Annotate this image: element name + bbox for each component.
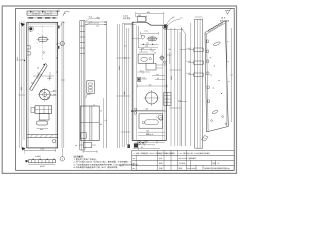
balloon 1 bottom xyxy=(60,157,64,161)
dim pair right of panel A xyxy=(61,21,63,148)
bottom dim line of panel xyxy=(25,149,56,151)
svg-text:2134: 2134 xyxy=(118,66,121,70)
svg-text:415: 415 xyxy=(149,83,152,86)
outer border xyxy=(2,6,236,173)
right edge view column group xyxy=(195,19,203,148)
lock assembly lower xyxy=(139,114,163,128)
svg-text:L=25: L=25 xyxy=(187,60,191,63)
svg-text:746: 746 xyxy=(145,108,148,111)
iso edge clips xyxy=(206,40,209,103)
obround lower xyxy=(36,121,48,125)
svg-text:审核: 审核 xyxy=(159,162,163,165)
small circle bottom right of panel xyxy=(52,140,55,143)
svg-text:85: 85 xyxy=(100,123,102,126)
keeper detail box xyxy=(87,81,95,94)
svg-text:30: 30 xyxy=(169,48,171,51)
mid dim line panel D xyxy=(138,85,168,87)
dimension tiny texts xyxy=(16,11,191,168)
svg-text:2134: 2134 xyxy=(16,57,19,61)
arm joint details xyxy=(43,64,45,66)
secondary box below cluster xyxy=(146,63,156,70)
svg-text:45°: 45° xyxy=(172,16,175,19)
horizontal line across panel D xyxy=(132,110,166,112)
svg-text:1: 1 xyxy=(62,158,63,161)
svg-text:设计: 设计 xyxy=(159,157,163,160)
inner frame xyxy=(16,8,235,170)
svg-text:65: 65 xyxy=(154,52,156,55)
svg-text:12.7: 12.7 xyxy=(89,20,93,23)
svg-text:技术要求：: 技术要求： xyxy=(74,155,86,159)
small holes panel A xyxy=(43,52,45,54)
svg-text:L=25: L=25 xyxy=(187,72,191,75)
iso bracket small bottom xyxy=(202,136,209,142)
dims below panel D xyxy=(133,110,165,150)
extension line xyxy=(190,23,192,146)
iso face marks xyxy=(210,57,222,94)
right dim stack of panel D xyxy=(170,28,182,146)
svg-text:2100: 2100 xyxy=(20,87,23,91)
svg-text:（备注）: （备注） xyxy=(118,164,126,167)
hanger plate on top xyxy=(138,17,146,22)
svg-text:120: 120 xyxy=(145,45,148,48)
svg-text:260: 260 xyxy=(146,130,149,133)
surface finish symbol near plan xyxy=(63,12,70,16)
svg-text:4. 所有紧固件连接应按Ⅱ7才能（4×2）组装后使用。: 4. 所有紧固件连接应按Ⅱ7才能（4×2）组装后使用。 xyxy=(74,166,120,169)
svg-text:Φ4: Φ4 xyxy=(133,157,135,160)
svg-text:沉孔贯穿: 沉孔贯穿 xyxy=(123,17,130,20)
svg-text:1:5: 1:5 xyxy=(217,162,219,165)
detail circle with hatch (top right of panel D) xyxy=(163,24,168,29)
second check flag xyxy=(61,23,65,26)
svg-text:904: 904 xyxy=(147,11,150,14)
svg-text:05#: 05# xyxy=(165,152,168,155)
svg-text:2100: 2100 xyxy=(170,76,173,80)
svg-text:批准: 批准 xyxy=(159,167,163,170)
big circle in panel D xyxy=(146,92,158,104)
svg-text:1:06（第1页/共1页）2014经审批文件编号: 1:06（第1页/共1页）2014经审批文件编号 xyxy=(179,152,211,155)
svg-text:330: 330 xyxy=(46,13,49,16)
svg-text:日期: 日期 xyxy=(179,167,183,170)
svg-text:L=25: L=25 xyxy=(187,47,191,50)
group top dim xyxy=(195,16,203,18)
balloon bottom panel D xyxy=(138,141,142,145)
panel D inner stiles xyxy=(135,25,137,140)
table row texts xyxy=(133,152,231,170)
svg-text:Φ4: Φ4 xyxy=(133,167,135,170)
right edge view pair xyxy=(180,28,187,147)
svg-text:陕西西子富沃德电梯配件有限公司: 陕西西子富沃德电梯配件有限公司 xyxy=(205,167,231,170)
svg-text:2014: 2014 xyxy=(187,167,191,170)
ladder rungs xyxy=(80,26,85,54)
svg-text:a0331: a0331 xyxy=(192,167,197,170)
balloon A xyxy=(60,41,64,45)
roller brackets right edge xyxy=(58,26,60,29)
gap dimension lines xyxy=(86,17,107,25)
table-left labels xyxy=(118,161,131,167)
check flag symbol xyxy=(86,94,91,97)
svg-text:52: 52 xyxy=(141,146,143,149)
svg-text:Φ4: Φ4 xyxy=(133,162,135,165)
svg-text:Δ1415: Δ1415 xyxy=(40,165,45,168)
dark details bottom center xyxy=(127,144,130,148)
svg-text:2100: 2100 xyxy=(123,91,126,95)
bracket marks on column group xyxy=(188,48,203,76)
svg-text:302: 302 xyxy=(138,14,141,17)
middle panel D outline xyxy=(132,22,166,140)
surface finish texts top right xyxy=(220,17,229,23)
iso slots top xyxy=(208,22,222,31)
small bottom detail with arrows xyxy=(83,142,91,147)
panel D extra dims xyxy=(152,76,165,80)
isometric panel xyxy=(205,21,228,132)
svg-text:4-Φ13: 4-Φ13 xyxy=(123,14,128,17)
svg-text:机加工面用: 机加工面用 xyxy=(220,19,229,22)
bottom rail band xyxy=(27,134,58,136)
large detail rect below column B xyxy=(81,106,100,141)
hinge details left edge xyxy=(27,46,30,49)
panel A centerline xyxy=(42,26,44,61)
dark hub top-left of panel xyxy=(29,27,32,30)
section arrows left xyxy=(21,23,26,151)
surface finish mark top right xyxy=(226,10,230,14)
bottom-left: panel bottom sill detail xyxy=(29,160,56,163)
diagonal arm xyxy=(30,63,46,89)
parts list / title block table xyxy=(132,150,234,170)
plan view dim box xyxy=(27,11,58,15)
svg-text:1:1: 1:1 xyxy=(159,152,161,155)
obround hole near top xyxy=(38,37,47,41)
lock body rects xyxy=(35,106,52,114)
interlock extra dims xyxy=(138,48,157,74)
middle dimension stack xyxy=(117,24,133,148)
iso oval upper xyxy=(213,41,221,46)
stacked balloons left of lock xyxy=(134,108,137,111)
small squares column right edge xyxy=(164,93,171,106)
top dim lines xyxy=(124,12,164,25)
interlock cluster mid xyxy=(138,54,154,63)
svg-text:4-Φ9孔: 4-Φ9孔 xyxy=(35,155,41,158)
svg-text:a03-01-b05（图样编号）: a03-01-b05（图样编号） xyxy=(179,157,198,160)
circle mechanism xyxy=(40,89,51,100)
svg-text:2:1: 2:1 xyxy=(180,17,183,20)
svg-text:其 余: 其 余 xyxy=(221,17,225,20)
column B top leaders xyxy=(85,18,99,25)
main left panel front view xyxy=(27,22,58,148)
track line with roller dashes xyxy=(27,17,58,19)
svg-text:1740: 1740 xyxy=(40,148,44,151)
notes text block xyxy=(74,155,141,169)
top cluster in panel D xyxy=(138,26,140,48)
svg-text:420: 420 xyxy=(145,140,148,143)
iso right edge ticks + dim line xyxy=(227,28,233,122)
left dimension stack xyxy=(19,21,26,148)
mid dim line xyxy=(33,75,54,77)
long extension line C xyxy=(103,21,106,148)
svg-text:2. 开门行程H=400±8（A2M30C1级），整机装配。: 2. 开门行程H=400±8（A2M30C1级），整机装配。 xyxy=(74,161,118,164)
svg-text:比例: 比例 xyxy=(212,162,216,165)
svg-text:工艺校对: 工艺校对 xyxy=(179,162,186,165)
svg-text:外协件图样1：1: 外协件图样1：1 xyxy=(118,161,131,164)
svg-text:25.4: 25.4 xyxy=(89,16,93,19)
left edge dark detail xyxy=(137,77,140,81)
svg-text:1张: 1张 xyxy=(172,152,175,155)
edge view column B (ladder) xyxy=(80,21,85,151)
svg-text:1 T2.1: 1 T2.1 xyxy=(144,29,149,32)
svg-text:330: 330 xyxy=(35,13,38,16)
